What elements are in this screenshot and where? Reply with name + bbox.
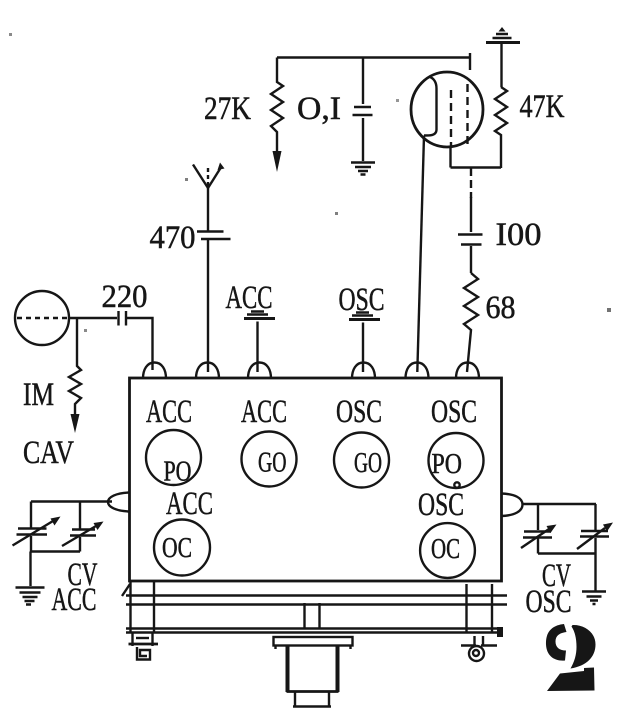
svg-text:ACC: ACC bbox=[146, 394, 192, 430]
svg-text:CAV: CAV bbox=[23, 435, 74, 471]
svg-text:ACC: ACC bbox=[52, 582, 97, 618]
svg-text:PO: PO bbox=[164, 456, 192, 488]
svg-text:PO: PO bbox=[432, 448, 463, 480]
svg-text:ACC: ACC bbox=[226, 280, 273, 316]
svg-text:27K: 27K bbox=[204, 91, 251, 127]
svg-text:O,I: O,I bbox=[297, 91, 341, 127]
svg-text:470: 470 bbox=[150, 220, 196, 256]
svg-text:OSC: OSC bbox=[526, 584, 572, 620]
svg-text:GO: GO bbox=[354, 447, 382, 479]
svg-text:OSC: OSC bbox=[431, 394, 477, 430]
svg-text:47K: 47K bbox=[520, 89, 565, 125]
svg-text:IM: IM bbox=[23, 377, 54, 413]
svg-text:220: 220 bbox=[102, 279, 148, 315]
svg-text:ACC: ACC bbox=[166, 486, 213, 522]
svg-text:OSC: OSC bbox=[336, 394, 382, 430]
svg-text:OC: OC bbox=[431, 533, 460, 565]
svg-text:GO: GO bbox=[258, 447, 287, 479]
svg-text:I00: I00 bbox=[496, 217, 542, 253]
svg-text:OSC: OSC bbox=[339, 282, 385, 318]
svg-text:ACC: ACC bbox=[241, 394, 287, 430]
svg-text:OC: OC bbox=[162, 532, 192, 564]
svg-text:OSC: OSC bbox=[418, 487, 464, 523]
svg-text:68: 68 bbox=[486, 290, 516, 326]
